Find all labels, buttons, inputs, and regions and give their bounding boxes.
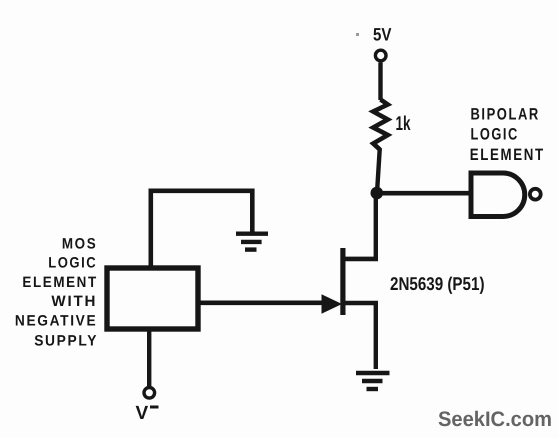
wire MOS box top pin to upper ground — [151, 191, 253, 268]
svg-text:5V: 5V — [373, 25, 392, 45]
svg-text:SeekIC.com: SeekIC.com — [438, 408, 552, 431]
node A junction dot — [371, 187, 384, 200]
ground below transistor — [356, 373, 390, 389]
V- supply terminal — [144, 388, 155, 399]
ground upper near MOS box — [236, 234, 268, 250]
wire MOS box output to transistor Q1 gate — [198, 300, 325, 305]
wire transistor Q1 source to ground — [374, 303, 378, 369]
svg-text:V: V — [136, 403, 149, 424]
svg-text:NEGATIVE: NEGATIVE — [15, 313, 97, 330]
svg-text:MOS: MOS — [62, 235, 97, 252]
svg-text:ELEMENT: ELEMENT — [470, 146, 545, 164]
svg-text:SUPPLY: SUPPLY — [34, 332, 98, 349]
wire node A to transistor Q1 drain — [374, 193, 378, 261]
MOS logic element box — [107, 268, 198, 329]
svg-text:WITH: WITH — [51, 293, 97, 310]
svg-text:LOGIC: LOGIC — [471, 126, 519, 144]
wire 5V terminal to resistor R1 — [378, 63, 382, 101]
wire resistor R1 to node A — [377, 148, 380, 193]
wire node A to NAND gate input — [377, 191, 469, 196]
svg-text:1k: 1k — [396, 113, 412, 135]
transistor Q1 channel bar — [340, 248, 345, 315]
svg-text:ELEMENT: ELEMENT — [22, 274, 97, 291]
scan speck near 5V label — [356, 33, 359, 36]
label MOS LOGIC ELEMENT WITH NEGATIVE SUPPLY — [15, 235, 98, 349]
transistor Q1 gate arrow — [322, 294, 343, 314]
transistor Q1 source lead — [344, 301, 379, 306]
resistor R1 1k — [373, 100, 388, 150]
wire MOS box bottom pin to V- terminal — [147, 329, 151, 387]
svg-text:2N5639 (P51): 2N5639 (P51) — [390, 273, 485, 294]
svg-text:BIPOLAR: BIPOLAR — [471, 105, 540, 123]
svg-text:LOGIC: LOGIC — [48, 255, 97, 272]
NAND gate U1 bipolar logic element — [471, 173, 525, 217]
transistor Q1 drain lead — [344, 257, 379, 262]
5V supply terminal — [375, 50, 386, 61]
